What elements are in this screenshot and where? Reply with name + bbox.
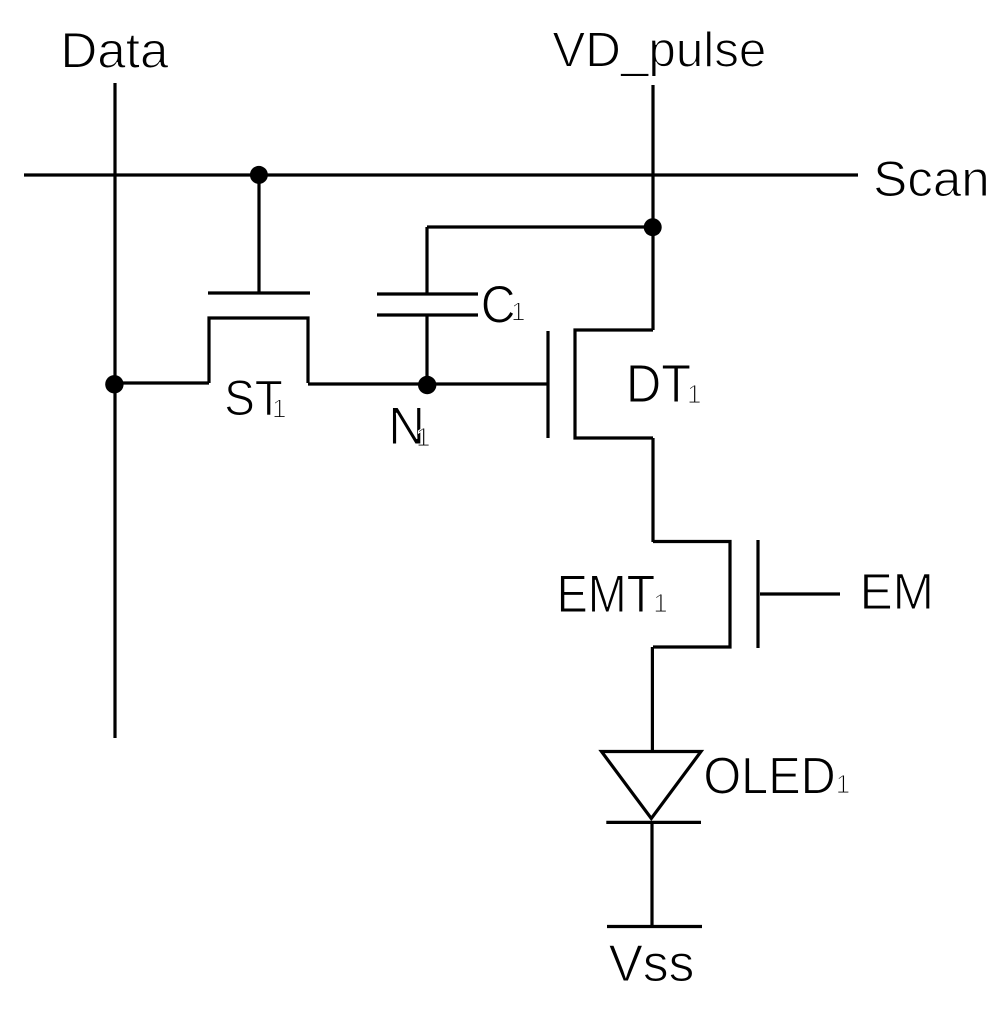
- capacitor C1 top plate: [377, 292, 478, 295]
- svg-text:VD_pulse: VD_pulse: [552, 24, 766, 78]
- svg-text:Vss: Vss: [609, 934, 695, 992]
- wire VD_pulse vertical line: [651, 85, 654, 330]
- wire Data vertical line: [113, 83, 116, 738]
- svg-text:Data: Data: [60, 21, 169, 78]
- wire EMT1 source to OLED anode: [651, 647, 654, 751]
- svg-text:1: 1: [416, 422, 430, 452]
- wire ST1 drain to N1 to DT1 gate: [308, 382, 548, 385]
- transistor ST1 channel/body: [209, 318, 308, 383]
- diode OLED1 cathode bar: [606, 821, 701, 824]
- svg-text:DT: DT: [626, 354, 691, 414]
- node N1 junction dot: [418, 376, 436, 394]
- capacitor C1 top lead: [425, 227, 428, 293]
- svg-text:1: 1: [836, 769, 850, 799]
- svg-text:1: 1: [272, 394, 286, 424]
- svg-text:1: 1: [687, 379, 701, 409]
- wire EMT1 gate lead to EM: [760, 592, 840, 595]
- node junction dot on Scan at ST1 gate: [250, 166, 268, 184]
- capacitor C1 bottom plate: [377, 313, 478, 316]
- wire C1 top to VD_pulse junction: [427, 225, 653, 228]
- svg-text:Scan: Scan: [873, 151, 990, 207]
- transistor DT1 drain lead: [575, 330, 653, 438]
- wire ST1 gate lead from Scan: [257, 175, 260, 292]
- transistor EMT1 channel/body: [653, 542, 730, 648]
- power Vss bar: [607, 925, 702, 928]
- svg-text:EMT: EMT: [557, 565, 656, 624]
- svg-text:1: 1: [653, 588, 667, 618]
- node junction dot Data line: [105, 375, 123, 393]
- svg-text:EM: EM: [860, 563, 934, 620]
- transistor EMT1 gate bar: [756, 540, 759, 648]
- wire Data junction to ST1 source: [115, 381, 209, 384]
- svg-text:1: 1: [511, 297, 525, 327]
- node junction dot VD_pulse: [644, 218, 662, 236]
- transistor DT1 gate bar: [546, 331, 549, 438]
- wire OLED cathode to Vss: [650, 823, 653, 925]
- transistor ST1 gate bar: [208, 291, 310, 294]
- diode OLED1 triangle: [602, 752, 702, 819]
- capacitor C1 bottom lead: [425, 315, 428, 384]
- svg-text:OLED: OLED: [703, 746, 835, 804]
- wire Scan horizontal line: [24, 173, 858, 176]
- wire DT1 source to EMT1: [651, 438, 654, 542]
